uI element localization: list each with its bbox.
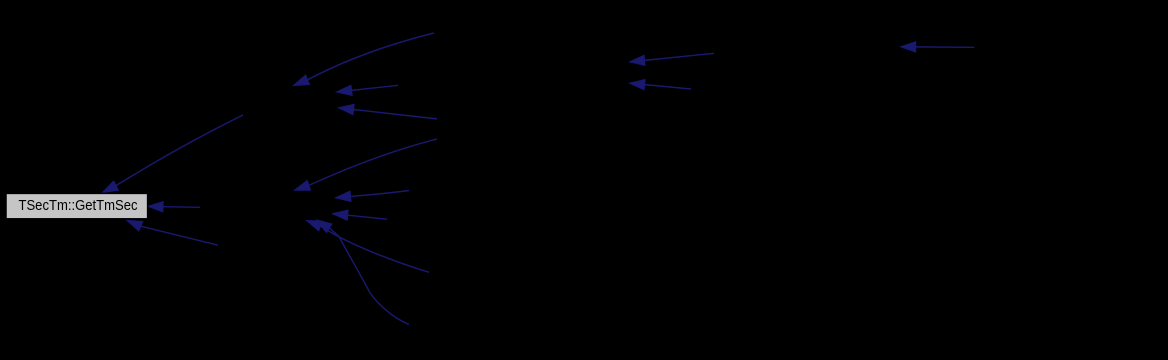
svg-text:TSecTm::GetTmSec: TSecTm::GetTmSec	[19, 198, 138, 214]
edge c5a->nodeD	[901, 42, 975, 52]
edge c3top->nodeA curve	[294, 33, 435, 86]
edge c3e->nodeB	[336, 191, 410, 202]
edge c3g->nodeB curve	[307, 221, 430, 273]
edge c4a->nodeC	[630, 53, 715, 65]
edge c3d->nodeB	[295, 139, 438, 190]
edge c4b->nodeC	[630, 80, 692, 90]
edge c3f->nodeB	[333, 210, 388, 220]
node TSecTm::GetTmSec (current function, highlighted)	[6, 193, 148, 218]
edge nodeA->GetTmSec	[103, 115, 244, 193]
edge c3h->nodeB curve	[317, 220, 410, 325]
edge c3c->nodeA	[339, 104, 438, 119]
edge nodeE->GetTmSec	[127, 220, 218, 245]
edge nodeB->GetTmSec	[148, 202, 200, 212]
edge c3b->nodeA	[337, 85, 399, 95]
